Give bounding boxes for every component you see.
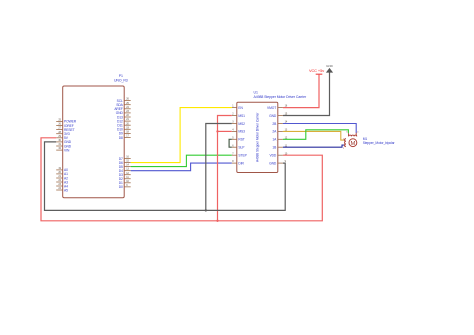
svg-text:EN: EN xyxy=(238,106,243,110)
pin 10 D9 (P1) xyxy=(119,131,131,136)
junction dark rail xyxy=(205,209,207,211)
pin 17 SDA (P1) xyxy=(116,102,130,107)
pin 3 D2 (P1) xyxy=(119,176,131,181)
A4988 driver U1 xyxy=(237,90,307,172)
ground symbol xyxy=(326,64,334,73)
motor coil 1 (left, vertical) xyxy=(345,139,346,147)
svg-text:SLP: SLP xyxy=(238,146,245,150)
svg-text:U1: U1 xyxy=(254,90,258,94)
wire 5V rail to VDD (red) xyxy=(41,138,322,221)
pin 7 D6 (P1) xyxy=(119,160,131,165)
pin 9 D8 (P1) xyxy=(119,135,131,140)
motor coil 2 (top, horizontal) xyxy=(349,135,357,136)
pin 11 D10 (P1) xyxy=(117,126,131,131)
wire 1B to motor coil1 bottom (navy) xyxy=(283,145,344,147)
jumper RST-SLP xyxy=(229,139,232,147)
svg-text:GND: GND xyxy=(269,161,277,165)
pin 16 VMOT (U1) xyxy=(267,105,288,110)
pin 13 D12 (P1) xyxy=(117,118,131,123)
pin 14 D13 (P1) xyxy=(117,114,131,119)
pin 6 SLP (U1) xyxy=(232,144,245,149)
svg-text:MS3: MS3 xyxy=(238,130,245,134)
wire GND15 to GND symbol (dark) xyxy=(283,72,330,115)
pin 19 A0 (P1) xyxy=(56,167,68,172)
svg-text:MS2: MS2 xyxy=(238,122,245,126)
svg-text:VDD: VDD xyxy=(269,154,276,158)
pin 2 D1 (P1) xyxy=(119,180,131,185)
pin 25 POWER (P1) xyxy=(56,119,77,124)
pin 4 MS3 (U1) xyxy=(232,129,245,134)
junction red MS3 xyxy=(216,130,218,132)
motor coil 2 pin stubs xyxy=(349,133,357,136)
pin 8 DIR (U1) xyxy=(232,160,245,165)
pin 16 AREF (P1) xyxy=(114,106,130,111)
pin 12 1A (U1) xyxy=(272,136,288,141)
wire D6 to EN (yellow) xyxy=(131,108,232,163)
pin 2 MS1 (U1) xyxy=(232,113,245,118)
pin 13 2A (U1) xyxy=(272,129,288,134)
wire 2B to motor coil2 right (blue) xyxy=(283,124,356,134)
svg-text:P1: P1 xyxy=(119,74,123,78)
pin 23 A4 (P1) xyxy=(56,183,68,188)
svg-text:VMOT: VMOT xyxy=(267,106,276,110)
svg-text:MS1: MS1 xyxy=(238,114,245,118)
pin 8 D7 (P1) xyxy=(119,156,131,161)
svg-text:DIR: DIR xyxy=(238,161,244,165)
svg-text:A4988 Stepper Motor Driver Car: A4988 Stepper Motor Driver Carrier xyxy=(256,112,260,162)
svg-text:STEP: STEP xyxy=(238,154,247,158)
pin 7 STEP (U1) xyxy=(232,152,248,157)
pin 15 GND (P1) xyxy=(116,110,131,115)
pin 20 A1 (P1) xyxy=(56,171,68,176)
pin 3 MS2 (U1) xyxy=(232,121,245,126)
pin 14 2B (U1) xyxy=(272,121,288,126)
svg-text:D0: D0 xyxy=(119,185,123,189)
wire 2A to motor coil1 top (orange) xyxy=(283,131,344,140)
svg-text:A5: A5 xyxy=(64,188,68,192)
pin 9 GND (U1) xyxy=(269,160,286,165)
pin 26 IOREF (P1) xyxy=(56,123,74,128)
pin 21 A2 (P1) xyxy=(56,175,68,180)
wire VMOT to VCC (red) xyxy=(283,74,319,107)
stepper motor M1 xyxy=(343,131,396,150)
svg-text:A4988 Stepper Motor Driver Car: A4988 Stepper Motor Driver Carrier xyxy=(254,95,307,99)
svg-text:VIN: VIN xyxy=(64,148,70,152)
VCC +5v symbol xyxy=(309,68,324,74)
svg-text:M: M xyxy=(350,141,355,147)
pin 12 D11 (P1) xyxy=(117,122,130,127)
wire GND rail to GND9 (dark) xyxy=(45,142,286,211)
pin 22 A3 (P1) xyxy=(56,179,68,184)
svg-text:RST: RST xyxy=(238,138,244,142)
wire D5 to STEP (green) xyxy=(131,155,232,166)
svg-text:Stepper_Motor_bipolar: Stepper_Motor_bipolar xyxy=(363,141,396,145)
pin 5 D4 (P1) xyxy=(119,168,131,173)
pin 30 GND (P1) xyxy=(56,139,72,144)
pin 18 SCL (P1) xyxy=(117,98,131,103)
motor circle xyxy=(349,139,357,147)
pin 4 D3 (P1) xyxy=(119,172,131,177)
svg-text:GND: GND xyxy=(326,64,334,68)
pin 15 GND (U1) xyxy=(269,113,288,118)
motor coil 1 pin stubs xyxy=(344,140,346,145)
pin 24 A5 (P1) xyxy=(56,187,68,192)
wire red branch to MS1 xyxy=(218,116,232,221)
svg-text:VCC +5v: VCC +5v xyxy=(309,68,324,73)
svg-text:D8: D8 xyxy=(119,136,123,140)
pin 11 1B (U1) xyxy=(272,144,287,149)
pin 1 D0 (P1) xyxy=(119,184,131,189)
pin 5 RST (U1) xyxy=(232,136,245,141)
wire red branch to MS3 xyxy=(218,130,232,132)
pin 10 VDD (U1) xyxy=(269,152,287,157)
pin 31 GND (P1) xyxy=(56,143,72,148)
pin 1 EN (U1) xyxy=(232,105,244,110)
arduino P1 UNO_R3 xyxy=(63,74,128,198)
wire dark branch to MS2 xyxy=(206,124,232,211)
wire 1A to motor coil2 left (green) xyxy=(283,130,349,140)
wire D4 to DIR (blue) xyxy=(131,163,232,171)
svg-text:GND: GND xyxy=(269,114,277,118)
junction red rail xyxy=(216,220,218,222)
pin 6 D5 (P1) xyxy=(119,164,131,169)
pin 29 5V (P1) xyxy=(56,135,69,140)
svg-text:UNO_R3: UNO_R3 xyxy=(114,79,128,83)
pin 32 VIN (P1) xyxy=(56,147,70,152)
pin 28 3V3 (P1) xyxy=(56,131,70,136)
pin 27 RESET (P1) xyxy=(56,127,74,132)
